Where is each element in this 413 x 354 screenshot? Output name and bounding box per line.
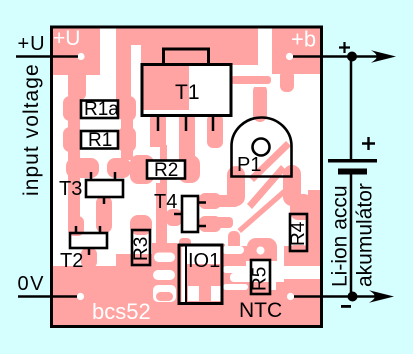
white band right of R4 blob — [284, 266, 320, 279]
wire NTC to battery — [294, 295, 380, 298]
transistor T2 body — [70, 233, 107, 248]
T4 lead right top — [198, 201, 206, 204]
svg-text:R1: R1 — [88, 130, 112, 151]
svg-text:+U: +U — [18, 33, 46, 55]
P1 wiper circle — [253, 139, 270, 156]
white gap right of R5 blob — [277, 241, 284, 262]
white notch IO1 inner left — [188, 286, 199, 301]
junction bottom — [348, 292, 358, 302]
pad hole NTC — [287, 293, 294, 300]
copper P1 left pad — [227, 166, 245, 206]
T4 lead left — [174, 213, 182, 216]
board outline — [52, 27, 322, 327]
copper finger right of T1 — [231, 76, 271, 84]
pad hole 0V — [77, 293, 84, 300]
transistor T1 body — [142, 65, 231, 116]
svg-text:T4: T4 — [154, 191, 177, 213]
IO1 inner stripe — [185, 247, 187, 303]
svg-text:input voltage: input voltage — [20, 63, 43, 196]
svg-text:IO1: IO1 — [188, 250, 220, 272]
copper bottom ground plane — [52, 243, 320, 325]
copper R1 right pad — [118, 127, 136, 152]
copper T1 leg column 3 — [207, 114, 223, 148]
svg-text:R5: R5 — [250, 267, 271, 291]
T1 leg 2 — [185, 116, 188, 131]
svg-text:akumulátor: akumulátor — [354, 183, 377, 287]
svg-text:R1a: R1a — [84, 99, 119, 120]
copper top band — [116, 28, 258, 65]
T4 lead right bottom — [198, 225, 206, 228]
battery wire lower — [350, 175, 353, 297]
resistor R5 — [251, 260, 270, 294]
copper trace T4 to P1 left pad — [212, 195, 240, 207]
plus battery — [362, 137, 375, 150]
T3 lead right — [114, 172, 117, 180]
svg-text:0V: 0V — [18, 273, 45, 295]
copper R1 left pad — [63, 127, 81, 152]
copper +U block top-left — [52, 28, 100, 75]
svg-text:R2: R2 — [154, 160, 178, 181]
copper T4 left pad — [166, 209, 182, 226]
transistor T1 tab — [164, 49, 209, 65]
copper T2 bottom pad — [81, 248, 97, 268]
battery plate long — [328, 159, 377, 163]
copper +b block — [272, 28, 320, 74]
copper trace corner down — [228, 231, 240, 250]
resistor R1 — [81, 131, 118, 149]
resistor R4 — [290, 214, 307, 251]
white slot IO1 left 2 — [153, 270, 175, 280]
copper T1 leg column 2 — [179, 114, 195, 165]
copper R1a right pad — [118, 96, 136, 121]
resistor R2 — [147, 161, 185, 179]
copper diagonal thin to R5 — [238, 180, 298, 234]
svg-text:T3: T3 — [59, 178, 82, 200]
pad hole R5 top — [257, 247, 265, 255]
T3 lead left — [90, 172, 93, 180]
copper T3 bottom pad trace — [96, 196, 112, 233]
white slot IO1 right 2 — [223, 284, 248, 290]
transistor T3 body — [86, 180, 123, 197]
T2 lead right — [99, 226, 102, 233]
svg-text:+b: +b — [291, 27, 316, 52]
copper P1 right pad — [283, 165, 301, 206]
board substrate — [52, 28, 320, 325]
battery plate short — [338, 169, 367, 175]
white slot IO1 left 3 — [153, 285, 176, 302]
white slot IO1 left 1 — [154, 253, 175, 263]
copper diagonal 2 below P1 — [247, 165, 286, 209]
svg-text:+U: +U — [53, 27, 80, 50]
copper diagonal in P1 — [249, 141, 291, 182]
copper IO1 pin pad top-left — [179, 238, 191, 247]
copper R2 right pad — [178, 155, 200, 183]
white gap around R5 box — [246, 261, 284, 282]
copper right pads link — [121, 100, 133, 160]
wire +U lead — [16, 55, 78, 58]
svg-text:NTC: NTC — [239, 299, 282, 322]
svg-text:R4: R4 — [288, 221, 309, 246]
copper P1 wiper capsule — [253, 84, 267, 122]
white sliver inside IO1 left — [182, 247, 186, 303]
junction top — [347, 52, 357, 62]
svg-text:T1: T1 — [175, 81, 200, 104]
svg-text:bcs52: bcs52 — [92, 299, 151, 324]
copper under T1 tab — [162, 48, 210, 64]
copper R4 bottom pad — [287, 245, 310, 265]
copper trace +U to R1a left pad — [68, 70, 86, 100]
white upper interior IO1 — [183, 247, 220, 265]
copper right edge column — [308, 190, 320, 266]
resistor R1a — [81, 101, 118, 119]
transistor T4 body — [182, 196, 198, 232]
copper T2 left top pad — [68, 216, 84, 236]
svg-text:Li-ion accu: Li-ion accu — [329, 185, 352, 287]
svg-text:R3: R3 — [131, 237, 152, 261]
copper capsule in left slot3 — [156, 292, 173, 301]
copper T4 right bottom pad — [199, 216, 221, 232]
copper trace col1 down behind R2 — [160, 145, 167, 183]
copper R1a left pad — [63, 96, 81, 121]
T1 leg 3 — [212, 116, 215, 131]
copper blob T3 left — [66, 158, 99, 178]
T2 lead left — [75, 226, 78, 233]
T3 lead bottom — [103, 197, 106, 204]
copper R2 left pad blob — [130, 155, 154, 184]
white slot right of R5 box — [271, 264, 276, 290]
IC IO1 — [179, 245, 222, 304]
copper R4 top pad — [290, 194, 312, 220]
T1 leg 1 — [157, 116, 160, 131]
minus bottom — [341, 305, 351, 308]
copper under T1 body — [141, 63, 189, 110]
copper R5 top blob — [247, 238, 277, 261]
T2 lead bottom — [88, 248, 91, 255]
plus top — [339, 42, 350, 53]
copper column top — [116, 30, 131, 100]
svg-text:P1: P1 — [237, 154, 261, 176]
copper left column trace — [68, 118, 80, 228]
wire 0V lead — [18, 295, 77, 298]
arrow bottom — [369, 290, 394, 303]
white slot IO1 right 1 — [223, 266, 248, 273]
copper trace below +b — [280, 70, 294, 92]
white gap finger/capsule — [251, 84, 269, 87]
copper T4 right top pad — [199, 193, 221, 209]
copper blob T3 right / R1 cluster — [107, 158, 131, 178]
white slot left of R5 — [230, 273, 250, 282]
arrow top — [371, 50, 396, 63]
pad hole +b — [286, 53, 293, 60]
wire +b to battery — [293, 55, 382, 58]
copper R3 top pad — [130, 215, 152, 235]
pad hole +U — [77, 53, 84, 60]
battery wire upper — [350, 57, 353, 161]
copper T1 leg column 1 — [150, 114, 166, 147]
white slot above IO1 right fingers — [222, 246, 244, 254]
potentiometer P1 — [232, 118, 292, 177]
copper trace T4b to right — [214, 217, 233, 228]
white notch IO1 inner right — [211, 286, 223, 301]
svg-text:T2: T2 — [60, 250, 83, 272]
copper trace R2 down to T4 and plane — [156, 183, 167, 252]
resistor R3 — [132, 230, 150, 265]
